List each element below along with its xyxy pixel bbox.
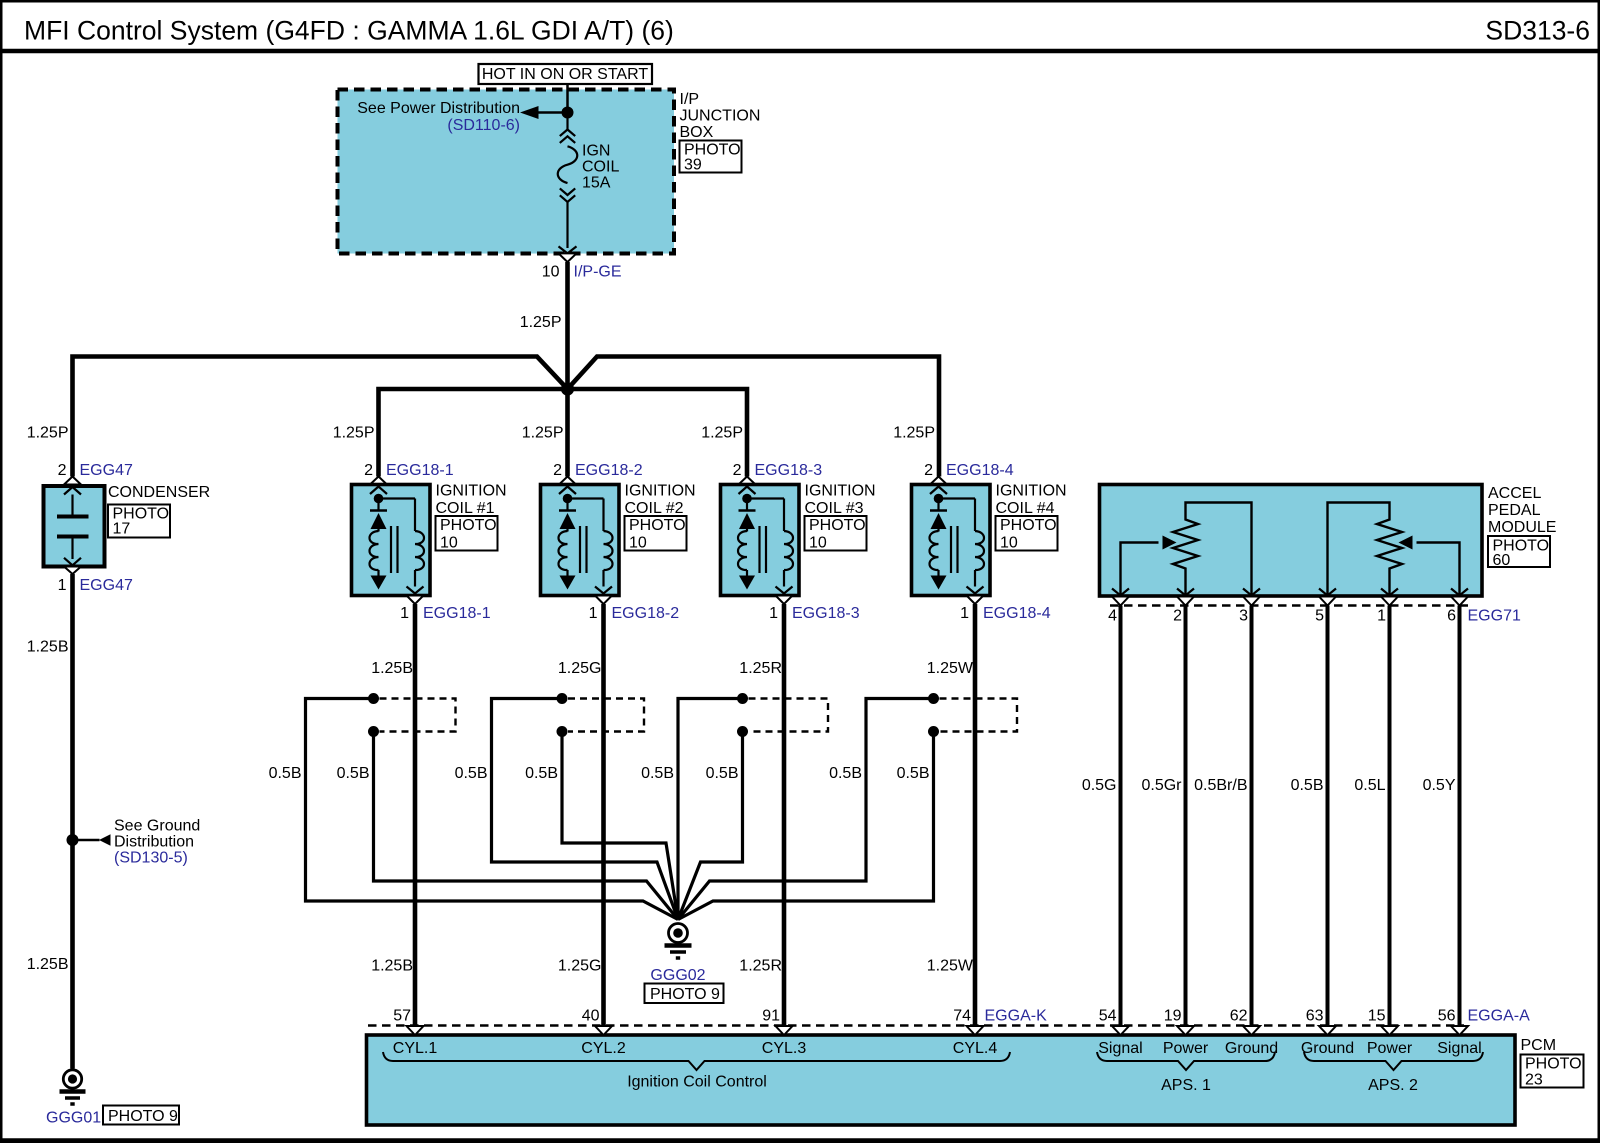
svg-text:1.25B: 1.25B [27,639,69,656]
brace: Ignition Coil Control group [383,1052,1010,1070]
fuse IGN COIL 15A [566,113,568,131]
svg-text:1.25P: 1.25P [701,425,743,442]
svg-text:1: 1 [1377,608,1386,625]
svg-text:See Power Distribution: See Power Distribution [357,100,520,117]
svg-text:IGN: IGN [582,143,610,160]
transformer coil 3 core [758,526,760,573]
svg-text:Ignition Coil Control: Ignition Coil Control [627,1074,767,1091]
svg-text:74: 74 [953,1008,971,1025]
svg-text:PHOTO: PHOTO [440,517,497,534]
svg-text:2: 2 [1173,608,1182,625]
svg-text:MODULE: MODULE [1488,519,1556,536]
svg-text:10: 10 [440,535,458,552]
transformer coil 4 primary winding [937,529,939,532]
power source label HOT IN ON OR START [479,64,653,84]
ignition coil #4 [912,485,991,596]
svg-text:2: 2 [58,462,67,479]
ground GGG01 [63,1070,81,1088]
connector I/P-GE pin 10 [559,246,577,253]
svg-text:2: 2 [553,462,562,479]
wire 0.5B: coil2 shield lower to GGG02 [562,732,678,920]
node: shield splice lower coil 1 [368,726,379,737]
svg-text:1: 1 [960,605,969,622]
diode coil 2 [559,509,576,512]
svg-text:0.5B: 0.5B [455,765,488,782]
svg-text:CYL.1: CYL.1 [393,1040,438,1057]
svg-text:EGG18-1: EGG18-1 [423,605,491,622]
svg-text:SD313-6: SD313-6 [1485,16,1590,46]
svg-text:CYL.4: CYL.4 [953,1040,998,1057]
wire: coil 2 internal link [568,497,604,499]
photo ref 17 [108,505,170,538]
node: coil 2 primary tap [563,494,573,504]
wire: I/P-GE feed to splice [565,262,570,389]
wire: coil 4 internal link [939,497,976,499]
svg-text:1.25P: 1.25P [333,425,375,442]
svg-text:91: 91 [762,1008,780,1025]
svg-text:Signal: Signal [1098,1040,1142,1057]
svg-text:1.25R: 1.25R [739,958,782,975]
photo ref 23 [1521,1055,1584,1088]
svg-text:EGGA-A: EGGA-A [1468,1008,1531,1025]
node: shield splice lower coil 3 [737,726,748,737]
svg-text:EGG18-3: EGG18-3 [792,605,860,622]
connector EGG71 pin 6 [1451,589,1468,596]
shield drain (dashed) coil 1 [380,699,456,732]
svg-text:10: 10 [542,264,560,281]
wire: hot feed into I/P junction box [566,84,569,113]
connector EGG18-3 pin 1 [776,596,793,605]
connector EGG71 pin 1 [1381,589,1398,596]
node: shield splice upper coil 2 [557,693,568,704]
svg-text:See Ground: See Ground [114,818,200,835]
accel pedal module [1100,485,1483,597]
connector EGG18-2 pin 1 [595,596,612,605]
svg-text:39: 39 [684,157,702,174]
photo ref 10 [625,516,687,551]
svg-text:IGNITION: IGNITION [436,483,507,500]
node: ground distribution tap [67,834,79,846]
svg-text:1.25B: 1.25B [371,958,413,975]
svg-text:2: 2 [733,462,742,479]
PCM pin 56 [1451,1026,1468,1035]
svg-text:40: 40 [582,1008,600,1025]
svg-text:EGG18-2: EGG18-2 [612,605,680,622]
svg-text:0.5B: 0.5B [525,765,558,782]
svg-text:57: 57 [393,1008,411,1025]
svg-text:6: 6 [1447,608,1456,625]
transformer coil 3 secondary winding [784,531,793,570]
potentiometer APS1 [1173,503,1252,597]
svg-text:0.5B: 0.5B [269,765,302,782]
wire: coil 4 control 1.25W [973,604,978,1026]
wire 0.5B: coil1 shield upper to GGG02 [306,699,679,920]
svg-text:GGG02: GGG02 [650,967,705,984]
wiper arrow APS2 [1417,543,1460,597]
ground GGG02 [669,924,688,943]
wire: coil 3 internal link [747,497,784,499]
transformer coil 2 primary winding [566,529,568,532]
PCM pin 74 [967,1026,984,1035]
svg-text:APS. 1: APS. 1 [1161,1077,1211,1094]
svg-text:15A: 15A [582,175,611,192]
svg-text:GGG01: GGG01 [46,1110,101,1127]
node: shield splice lower coil 4 [928,726,939,737]
wiper arrow APS1 [1121,543,1159,597]
transformer coil 3 primary winding [746,529,748,532]
svg-text:19: 19 [1164,1008,1182,1025]
photo ref 10 [805,516,867,551]
svg-text:PHOTO 9: PHOTO 9 [650,986,720,1003]
svg-text:I/P: I/P [680,91,700,108]
svg-text:ACCEL: ACCEL [1488,485,1541,502]
photo ref 60 [1488,536,1550,567]
svg-text:2: 2 [924,462,933,479]
svg-text:1.25B: 1.25B [371,660,413,677]
condenser [44,486,105,567]
svg-text:1.25P: 1.25P [893,425,935,442]
svg-text:Ground: Ground [1225,1040,1278,1057]
diode coil 1 [370,509,387,512]
svg-text:COIL #1: COIL #1 [436,500,495,517]
photo ref 10 [436,516,498,551]
wire 0.5B: coil4 shield lower to GGG02 [678,732,934,920]
connector EGG18-4 pin 1 [967,596,984,605]
svg-text:IGNITION: IGNITION [625,483,696,500]
ignition coil #2 [541,485,620,596]
transformer coil 1 primary winding [377,529,379,532]
svg-text:PHOTO: PHOTO [1525,1056,1582,1073]
svg-text:Power: Power [1163,1040,1209,1057]
svg-text:15: 15 [1368,1008,1386,1025]
svg-text:1: 1 [400,605,409,622]
svg-text:0.5Gr: 0.5Gr [1141,777,1182,794]
node: bus splice [561,382,574,395]
svg-text:10: 10 [1000,535,1018,552]
wire: bus splice to condenser [73,357,568,477]
svg-text:1.25P: 1.25P [522,425,564,442]
wire: coil 1 internal link [379,497,416,499]
svg-text:60: 60 [1493,552,1511,569]
svg-text:1: 1 [58,577,67,594]
svg-text:COIL #2: COIL #2 [625,500,684,517]
PCM pin 54 [1112,1026,1129,1035]
wire: condenser ground 1.25B [70,574,75,1069]
svg-text:PCM: PCM [1521,1037,1557,1054]
wire 0.5B: coil3 shield upper to GGG02 [678,699,743,920]
node: coil 1 primary tap [374,494,384,504]
svg-text:EGG18-1: EGG18-1 [386,462,454,479]
svg-text:CYL.3: CYL.3 [762,1040,807,1057]
svg-text:COIL #3: COIL #3 [805,500,864,517]
svg-text:PHOTO: PHOTO [629,517,686,534]
wire: APS 0.5Gr to PCM pin 19 [1184,606,1188,1026]
connector EGG71 pin 5 [1319,589,1336,596]
svg-text:0.5B: 0.5B [829,765,862,782]
PCM [367,1035,1516,1125]
svg-text:BOX: BOX [680,124,714,141]
wire: coil 1 control 1.25B [413,604,418,1026]
ignition coil #1 [352,485,431,596]
svg-text:Distribution: Distribution [114,834,194,851]
wire: bus splice to ignition coil 2 [565,389,570,477]
svg-text:Power: Power [1367,1040,1413,1057]
potentiometer APS2 [1328,503,1403,597]
svg-text:1.25G: 1.25G [558,660,602,677]
wire: APS 0.5L to PCM pin 15 [1388,606,1392,1026]
svg-text:EGG18-4: EGG18-4 [946,462,1014,479]
svg-text:PHOTO: PHOTO [1000,517,1057,534]
node: coil 4 primary tap [934,494,944,504]
svg-text:I/P-GE: I/P-GE [574,264,622,281]
brace: APS 1 group [1097,1052,1275,1070]
wire: coil 2 control 1.25G [601,604,606,1026]
svg-text:PHOTO: PHOTO [809,517,866,534]
transformer coil 1 secondary winding [415,531,424,570]
svg-text:1: 1 [589,605,598,622]
svg-text:10: 10 [629,535,647,552]
svg-text:EGG18-2: EGG18-2 [575,462,643,479]
svg-text:1.25W: 1.25W [927,660,974,677]
transformer coil 2 secondary winding [604,531,613,570]
transformer coil 4 core [950,526,952,573]
svg-text:2: 2 [364,462,373,479]
svg-text:EGG47: EGG47 [80,577,133,594]
svg-text:3: 3 [1239,608,1248,625]
svg-text:EGG18-4: EGG18-4 [983,605,1051,622]
svg-text:1.25G: 1.25G [558,958,602,975]
svg-text:1: 1 [769,605,778,622]
wire 0.5B: coil2 shield upper to GGG02 [492,699,679,920]
svg-text:PHOTO 9: PHOTO 9 [108,1108,178,1125]
wire 0.5B: coil3 shield lower to GGG02 [678,732,743,920]
svg-text:Signal: Signal [1437,1040,1481,1057]
svg-text:62: 62 [1230,1008,1248,1025]
svg-text:0.5G: 0.5G [1082,777,1117,794]
svg-text:0.5L: 0.5L [1354,777,1385,794]
svg-text:63: 63 [1306,1008,1324,1025]
shield drain (dashed) coil 3 [749,699,829,732]
svg-text:0.5B: 0.5B [1291,777,1324,794]
PCM pin 62 [1243,1026,1260,1035]
I/P junction box (dashed) [338,90,675,254]
svg-text:IGNITION: IGNITION [805,483,876,500]
svg-text:0.5B: 0.5B [706,765,739,782]
transformer coil 2 core [579,526,581,573]
svg-text:JUNCTION: JUNCTION [680,108,761,125]
node: coil 3 primary tap [742,494,752,504]
svg-text:5: 5 [1315,608,1324,625]
shield drain (dashed) coil 4 [940,699,1018,732]
svg-text:0.5B: 0.5B [337,765,370,782]
brace: APS 2 group [1304,1052,1483,1070]
wire: coil 3 control 1.25R [782,604,787,1026]
svg-text:1.25W: 1.25W [927,958,974,975]
svg-text:23: 23 [1525,1072,1543,1089]
svg-text:CONDENSER: CONDENSER [108,484,210,501]
node: power distribution tap [562,107,574,119]
svg-text:CYL.2: CYL.2 [581,1040,626,1057]
photo ref 9 [103,1106,179,1125]
connector EGG71 harness line [1110,604,1468,606]
photo ref 10 [996,516,1058,551]
photo ref 9 [645,984,724,1004]
svg-text:COIL #4: COIL #4 [996,500,1055,517]
svg-text:HOT IN ON OR START: HOT IN ON OR START [482,66,648,83]
node: shield splice upper coil 1 [368,693,379,704]
wire: bus to ignition coils 1 and 3 [379,389,748,477]
svg-text:0.5Br/B: 0.5Br/B [1194,777,1247,794]
svg-text:17: 17 [113,521,131,538]
wire: bus splice to ignition coil 4 [568,357,940,477]
photo ref 39 [680,141,742,173]
svg-text:PEDAL: PEDAL [1488,502,1541,519]
node: shield splice upper coil 3 [737,693,748,704]
connector EGG71 pin 2 [1177,589,1194,596]
svg-text:54: 54 [1099,1008,1117,1025]
PCM pin 19 [1177,1026,1194,1035]
svg-text:10: 10 [809,535,827,552]
PCM pin 57 [407,1026,424,1035]
diode coil 3 [739,509,756,512]
node: shield splice upper coil 4 [928,693,939,704]
wire: APS 0.5G to PCM pin 54 [1119,606,1123,1026]
svg-text:(SD110-6): (SD110-6) [447,117,520,134]
transformer coil 4 secondary winding [975,531,984,570]
svg-text:APS. 2: APS. 2 [1368,1077,1418,1094]
PCM pin 63 [1319,1026,1336,1035]
wire 0.5B: coil1 shield lower to GGG02 [374,732,679,920]
wire: APS 0.5Y to PCM pin 56 [1458,606,1462,1026]
svg-text:IGNITION: IGNITION [996,483,1067,500]
node: shield splice lower coil 2 [557,726,568,737]
arrow: see power distribution (SD110-6) [538,111,568,114]
wire: APS 0.5Br/B to PCM pin 62 [1250,606,1254,1026]
ignition coil #3 [721,485,800,596]
svg-text:56: 56 [1438,1008,1456,1025]
PCM harness line [368,1024,1464,1026]
svg-text:(SD130-5): (SD130-5) [114,850,188,867]
svg-text:EGG71: EGG71 [1468,608,1521,625]
connector EGG71 pin 4 [1112,589,1129,596]
svg-text:0.5B: 0.5B [897,765,930,782]
connector EGG18-1 pin 1 [407,596,424,605]
svg-text:Ground: Ground [1301,1040,1354,1057]
svg-text:COIL: COIL [582,159,619,176]
PCM pin 40 [595,1026,612,1035]
svg-text:0.5B: 0.5B [641,765,674,782]
arrow: see ground distribution (SD130-5) [73,839,100,842]
shield drain (dashed) coil 2 [568,699,644,732]
svg-text:EGG18-3: EGG18-3 [755,462,823,479]
connector EGG47 pin 1 [64,567,81,575]
svg-text:1.25P: 1.25P [27,425,69,442]
wire: APS 0.5B to PCM pin 63 [1326,606,1330,1026]
svg-text:MFI Control System (G4FD : GAM: MFI Control System (G4FD : GAMMA 1.6L GD… [24,16,674,46]
svg-text:4: 4 [1108,608,1117,625]
connector EGG71 pin 3 [1243,589,1260,596]
svg-text:1.25P: 1.25P [520,314,562,331]
svg-text:1.25R: 1.25R [739,660,782,677]
PCM pin 91 [776,1026,793,1035]
wire 0.5B: coil4 shield upper to GGG02 [678,699,934,920]
svg-text:EGG47: EGG47 [80,462,133,479]
svg-text:1.25B: 1.25B [27,956,69,973]
PCM pin 15 [1381,1026,1398,1035]
transformer coil 1 core [390,526,392,573]
svg-text:EGGA-K: EGGA-K [985,1008,1048,1025]
diode coil 4 [930,509,947,512]
svg-text:0.5Y: 0.5Y [1423,777,1456,794]
